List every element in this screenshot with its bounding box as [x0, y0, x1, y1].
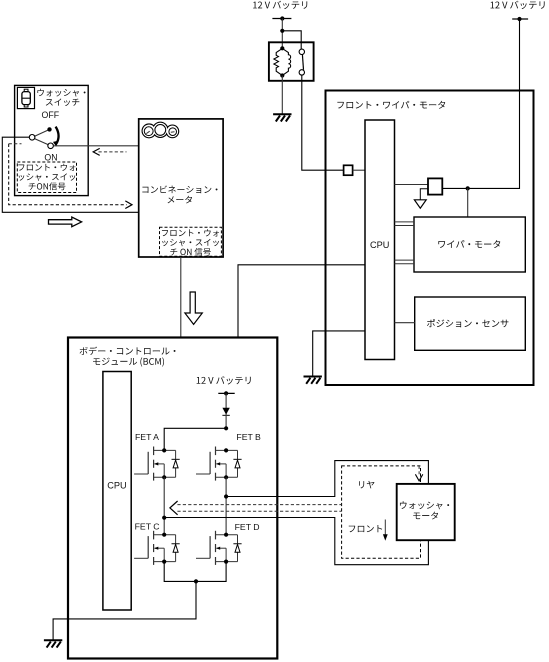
- relay box: [269, 42, 314, 81]
- label rear: [359, 481, 374, 489]
- junction wiper feed: [466, 186, 470, 190]
- arrow stub from connector: [420, 189, 428, 200]
- BCM CPU box: [103, 372, 131, 611]
- label front: [349, 525, 382, 532]
- label FET B: [236, 432, 261, 442]
- label 12V battery top-center: [253, 1, 307, 9]
- washer switch symbol: [29, 127, 59, 149]
- wire CPU ground left: [313, 331, 365, 376]
- wiper CPU box: [365, 120, 395, 360]
- label front washer ON signal sw2: [19, 173, 76, 180]
- wire H-bridge bottom: [164, 562, 226, 581]
- dashed signal path to meter: [9, 144, 127, 205]
- wire FET A to FET C: [163, 477, 165, 534]
- switch ON-signal dashed box: [17, 162, 76, 193]
- junction H-bridge top: [224, 426, 228, 430]
- wire relay coil to ground: [281, 76, 283, 114]
- wire feed into wiper motor: [467, 188, 469, 217]
- svg-text:CPU: CPU: [107, 480, 126, 490]
- front wiper motor box: [326, 91, 534, 386]
- dashed signal tap: [9, 143, 22, 145]
- wire BCM to ground: [53, 581, 196, 640]
- label front washer ON signal mt3: [170, 248, 211, 256]
- wire CPU to connector2: [395, 184, 429, 186]
- bus CPU to wiper motor lower: [395, 260, 415, 264]
- rear-front dashed box: [342, 466, 421, 558]
- label washer switch line1: [37, 89, 85, 97]
- label washer switch line2: [46, 99, 80, 107]
- dashed arrow head into meter: [125, 201, 132, 209]
- label FET A: [135, 432, 159, 442]
- wire meter to BCM: [180, 257, 182, 338]
- label combination meter line1: [142, 185, 217, 193]
- label position sensor: [427, 319, 509, 327]
- junction battery branch: [280, 29, 284, 33]
- dashed arrow to switch: [99, 151, 127, 153]
- dashed double arrow head: [170, 501, 178, 515]
- label 12V battery BCM: [197, 376, 251, 384]
- connector square left: [344, 165, 353, 175]
- label CPU bcm: [107, 480, 126, 490]
- wire BCM to wiper CPU: [238, 265, 365, 338]
- meter cluster icon: [142, 122, 179, 138]
- label 12V battery top-right: [491, 1, 545, 9]
- washer switch box: [15, 85, 89, 195]
- label ON: [44, 153, 57, 163]
- svg-text:CPU: CPU: [370, 240, 389, 250]
- label BCM line1: [80, 347, 176, 355]
- wire battery to relay coil: [281, 19, 283, 49]
- svg-text:FET B: FET B: [236, 432, 261, 442]
- connector square right: [428, 178, 442, 194]
- transistor FET D: [196, 531, 242, 565]
- hollow arrow right: [49, 217, 82, 227]
- wire top to FET A: [164, 428, 226, 450]
- wiper motor box: [414, 217, 525, 272]
- diode D1: [222, 408, 229, 416]
- transistor FET A: [134, 447, 180, 481]
- wire battery right down: [442, 19, 519, 188]
- battery feed BCM: [218, 391, 234, 395]
- label front washer ON signal mt2: [162, 239, 219, 246]
- battery feed top-center: [272, 16, 291, 20]
- label wiper motor: [438, 240, 500, 248]
- label washer motor line2: [413, 512, 438, 520]
- combination meter box: [139, 119, 223, 257]
- label washer motor line1: [400, 501, 449, 509]
- relay contact: [299, 49, 304, 75]
- label FET D: [235, 522, 260, 532]
- dashed arrow into washer motor: [418, 466, 420, 475]
- ground relay: [273, 114, 291, 121]
- dashed double arrow rear: [177, 505, 341, 512]
- open arrow down connector: [414, 200, 426, 208]
- label front washer ON signal sw1: [18, 164, 75, 171]
- label front washer ON signal mt1: [162, 229, 219, 236]
- svg-text:OFF: OFF: [42, 110, 60, 120]
- label front washer ON signal sw3: [29, 182, 66, 190]
- ground wiper CPU: [304, 377, 322, 384]
- wire switch output to meter: [53, 145, 138, 147]
- BCM box: [68, 338, 277, 659]
- arrow front down: [383, 520, 388, 541]
- wire relay contact to wiper CPU: [302, 75, 344, 170]
- transistor FET C: [134, 531, 180, 565]
- label BCM line2: [93, 357, 164, 366]
- position sensor box: [415, 297, 526, 350]
- washer motor box: [397, 484, 455, 540]
- wire FET B to FET D: [225, 477, 227, 534]
- label FET C: [135, 522, 160, 532]
- wire switch common loop: [2, 137, 138, 212]
- wire connector to CPU: [353, 169, 365, 171]
- junction node rear: [224, 494, 228, 498]
- wire battery to diode: [225, 393, 227, 428]
- junction bottom: [194, 579, 198, 583]
- label OFF: [42, 110, 60, 120]
- transistor FET B: [196, 447, 242, 481]
- wire branch to relay contact: [282, 31, 301, 52]
- svg-text:FET A: FET A: [135, 432, 159, 442]
- bus CPU to wiper motor upper: [395, 222, 415, 226]
- label CPU wiper: [370, 240, 389, 250]
- hollow arrow down: [185, 292, 202, 324]
- relay coil: [274, 46, 291, 77]
- washer switch stalk icon: [17, 87, 34, 108]
- junction node front: [162, 516, 166, 520]
- wire CPU to position sensor: [395, 322, 415, 324]
- svg-text:ON: ON: [44, 153, 57, 163]
- svg-text:FET D: FET D: [235, 522, 260, 532]
- svg-text:FET C: FET C: [135, 522, 160, 532]
- meter ON-signal dashed box: [160, 227, 222, 256]
- label front wiper motor: [337, 101, 445, 109]
- dashed arrow head washer: [415, 474, 422, 481]
- wire washer motor loop: [164, 461, 428, 565]
- label combination meter line2: [168, 196, 193, 204]
- ground BCM: [44, 640, 62, 647]
- dashed arrow head to switch: [93, 148, 100, 155]
- battery feed top-right: [512, 17, 528, 21]
